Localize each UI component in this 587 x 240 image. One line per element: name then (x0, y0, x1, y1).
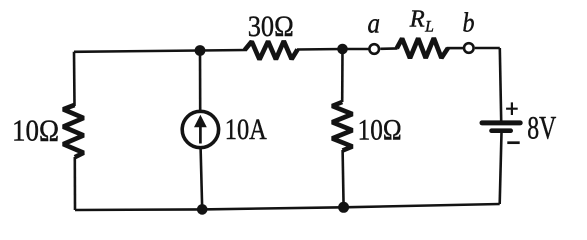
label: + polarity mark (506, 102, 518, 115)
wire: bottom horizontal from right corner to middle junction (344, 204, 500, 207)
resistor 30Ω (horizontal zigzag) (245, 41, 298, 59)
svg-text:30Ω: 30Ω (248, 10, 294, 43)
wire: top segment from junction to 30-ohm resistor (200, 49, 246, 52)
svg-text:b: b (463, 8, 475, 38)
wire: top segment from 30-ohm resistor to junction (297, 48, 343, 51)
terminal a (open circle) (369, 44, 379, 54)
svg-text:10A: 10A (225, 113, 267, 146)
wire: current source branch lower vertical (201, 148, 203, 209)
node label b (463, 8, 475, 38)
current source 10A (circle) (182, 111, 218, 147)
terminal b (open circle) (464, 43, 474, 53)
battery 8V: long positive plate (482, 120, 520, 125)
resistor R 10Ω left (vertical zigzag) (63, 105, 83, 157)
junction: bottom node of current source branch (197, 204, 208, 215)
label: 10Ω value (left resistor) (12, 113, 59, 147)
label: 10Ω value (middle resistor) (358, 113, 402, 146)
wire: bottom horizontal from middle junction to current source junction (202, 207, 343, 209)
svg-text:L: L (424, 18, 434, 35)
wire: segment from RL to terminal b (447, 47, 463, 50)
svg-text:8V: 8V (527, 111, 556, 147)
wire: left vertical from 10-ohm resistor down to bottom corner (74, 157, 77, 210)
wire: middle resistor branch upper vertical (341, 49, 344, 102)
wire: bottom horizontal from current source junction to left corner (75, 208, 202, 211)
wire: short segment from junction to terminal a (343, 48, 369, 51)
svg-text:10Ω: 10Ω (358, 113, 402, 146)
wire: current source branch upper vertical (199, 51, 202, 111)
wire: segment from terminal a to RL (380, 47, 397, 50)
wire: top-right segment from terminal b to corner (475, 47, 500, 50)
resistor RL (horizontal zigzag) (397, 38, 448, 58)
current source 10A (upward arrow) (194, 115, 207, 144)
wire: right vertical from top corner down to battery (500, 48, 501, 121)
svg-text:a: a (368, 9, 381, 40)
wire: right vertical from battery down to bottom corner (500, 133, 502, 205)
label: 30Ω value (248, 10, 294, 43)
node label a (368, 9, 381, 40)
svg-text:10Ω: 10Ω (12, 113, 59, 147)
wire: top-left horizontal segment (74, 51, 200, 52)
resistor 10Ω middle (vertical zigzag) (332, 102, 352, 151)
junction: top node joining middle resistor branch (337, 44, 348, 55)
label: 8V value (527, 111, 556, 147)
junction: top node joining current source branch (195, 45, 206, 56)
wire: left vertical from top corner down to 10-ohm resistor (73, 52, 76, 106)
wire: middle resistor branch lower vertical (343, 150, 344, 207)
label: - polarity mark (507, 141, 519, 144)
label: RL reference designator (409, 5, 434, 35)
label: 10A value (225, 113, 267, 146)
battery 8V: short negative plate (492, 128, 511, 133)
svg-text:R: R (409, 5, 425, 32)
junction: bottom node of middle resistor branch (338, 202, 349, 213)
